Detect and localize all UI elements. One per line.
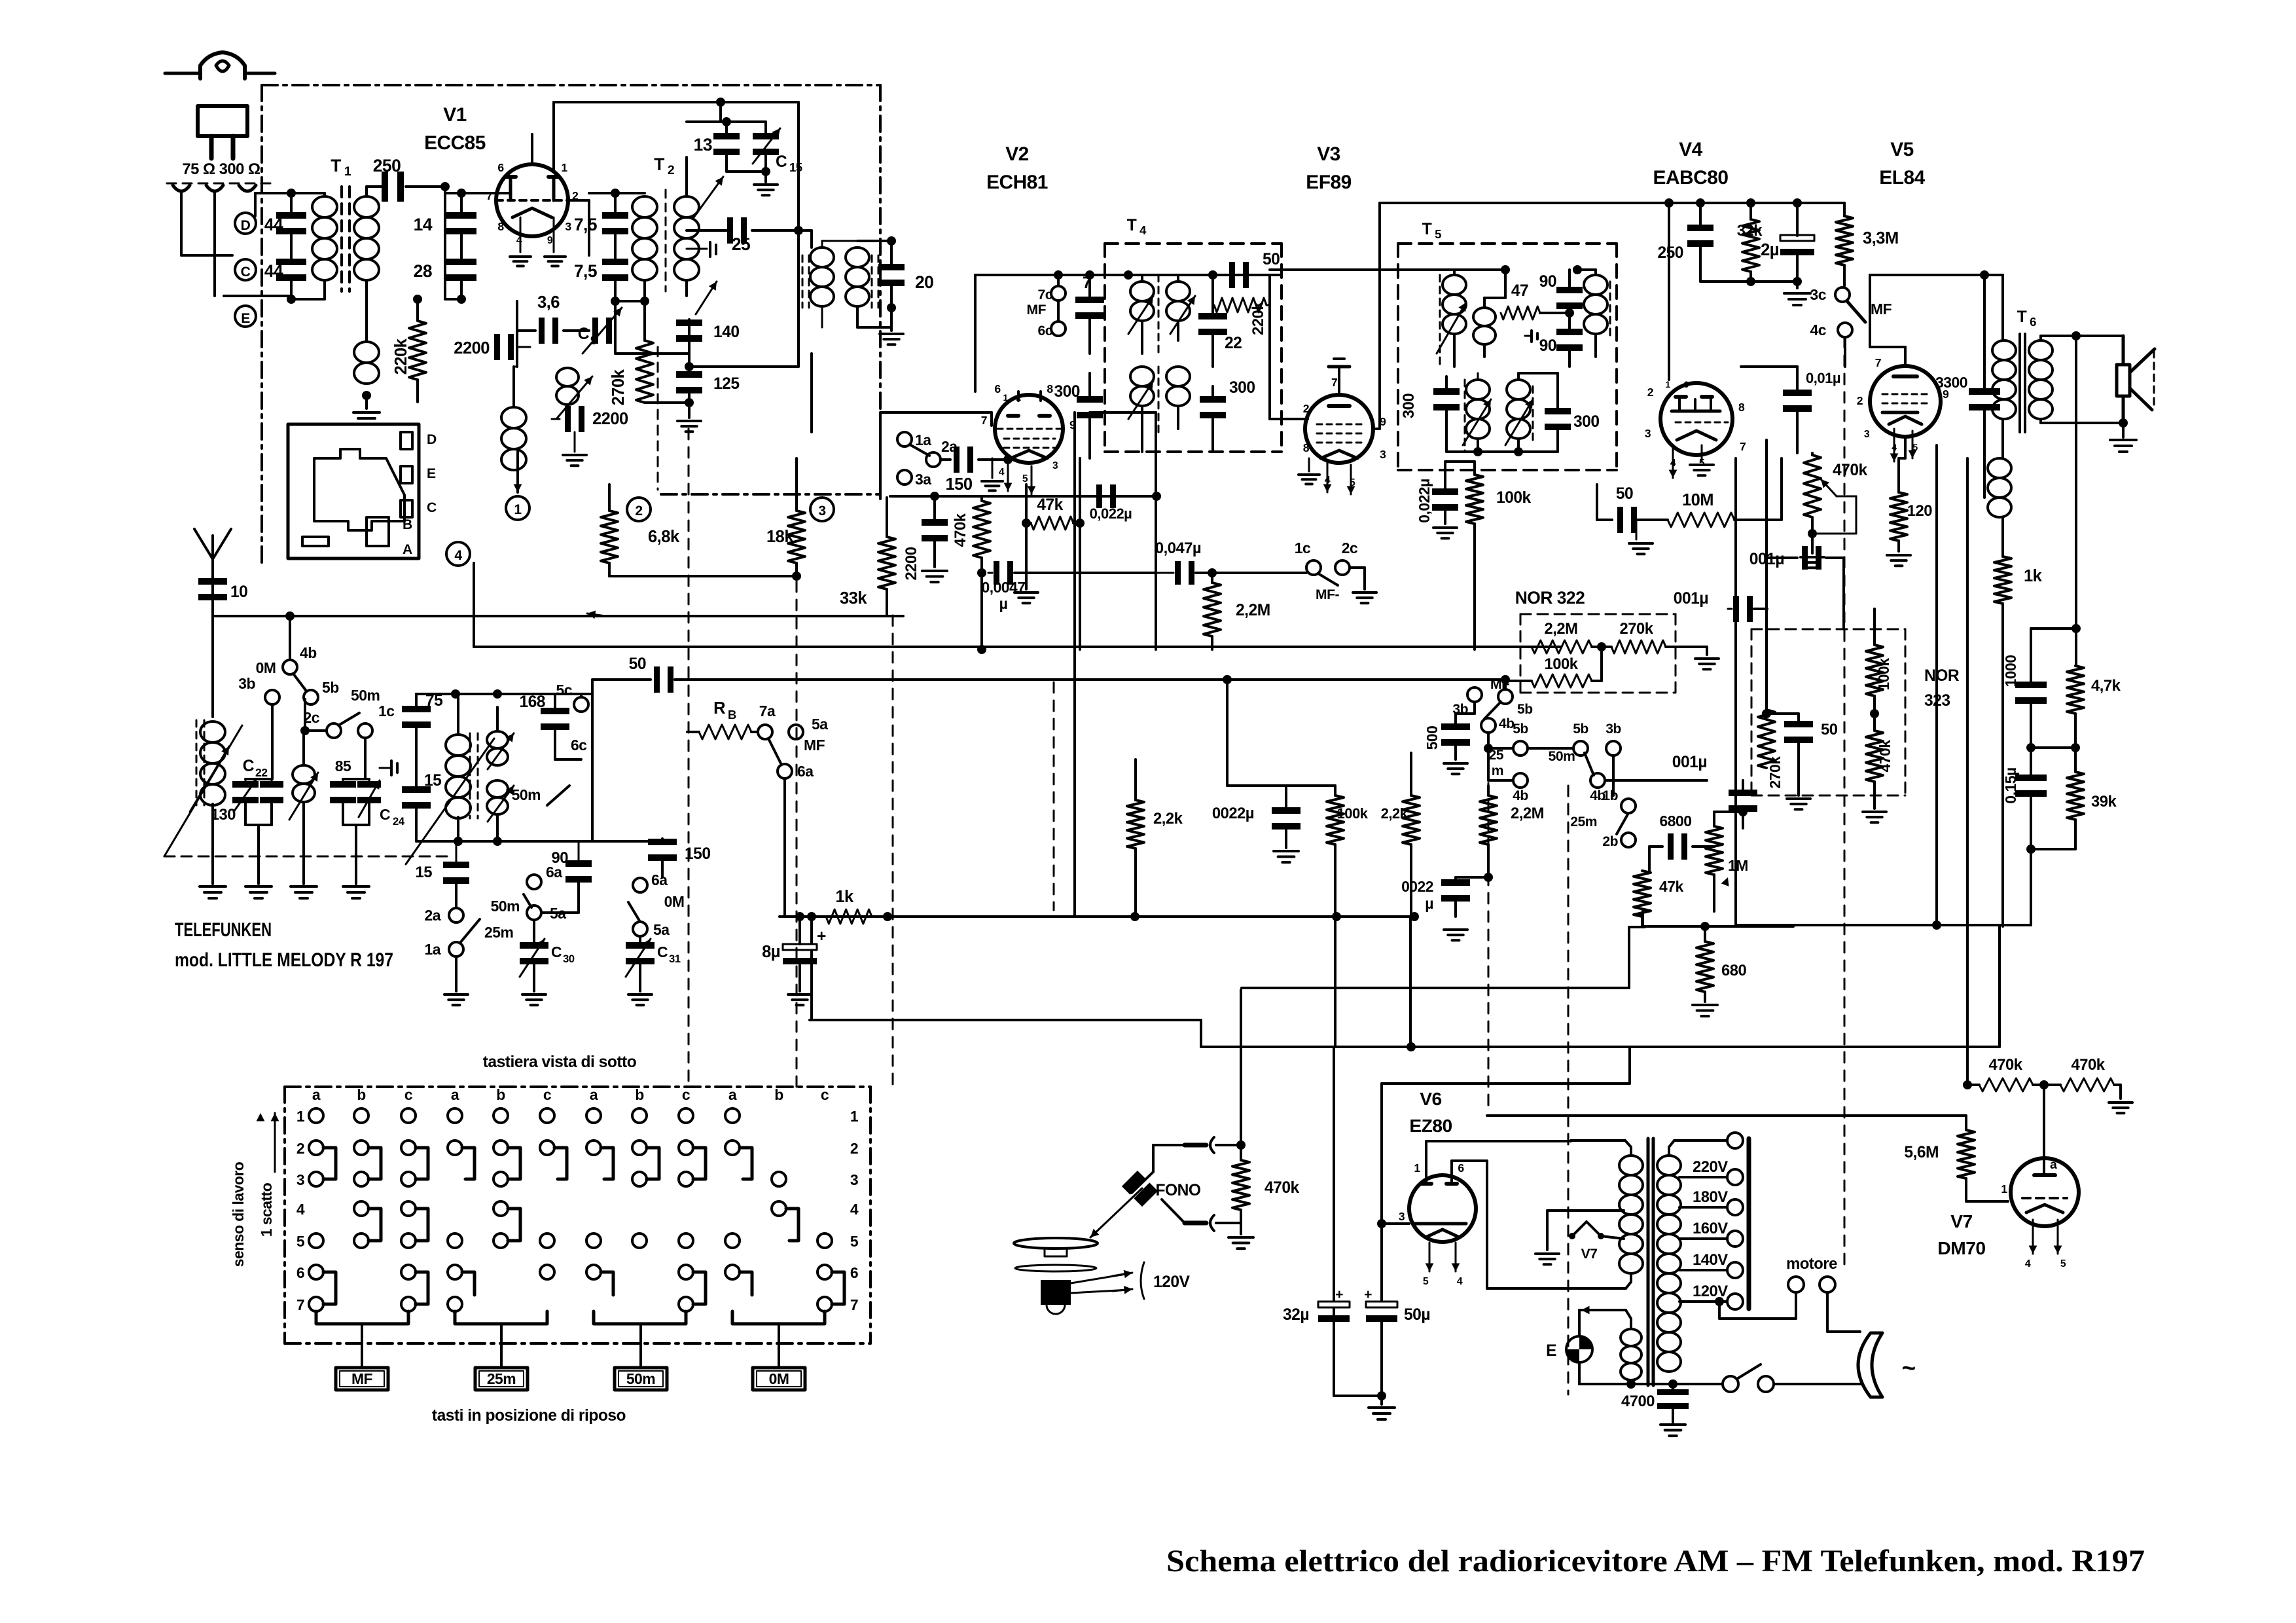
svg-text:6: 6	[1683, 379, 1689, 390]
svg-text:1c: 1c	[378, 702, 395, 720]
arrow to turntable	[1090, 1188, 1142, 1237]
1M wiper	[1641, 910, 1644, 926]
svg-text:47k: 47k	[1659, 878, 1683, 895]
wire top 0,01u	[1741, 365, 1797, 368]
svg-text:75 Ω 300 Ω: 75 Ω 300 Ω	[182, 160, 260, 178]
ground 90	[578, 912, 579, 913]
svg-text:150: 150	[945, 475, 972, 494]
coil pair right	[487, 731, 508, 748]
svg-text:2: 2	[850, 1140, 858, 1157]
svg-text:C: C	[380, 806, 390, 823]
svg-text:1 scatto: 1 scatto	[258, 1182, 275, 1237]
fono plug bottom	[1210, 1215, 1214, 1231]
V2 pin arrows	[1007, 463, 1009, 491]
svg-text:20: 20	[915, 272, 933, 292]
svg-text:3: 3	[1052, 460, 1058, 471]
svg-text:3,3M: 3,3M	[1863, 229, 1899, 247]
svg-text:C: C	[776, 153, 787, 171]
svg-text:T: T	[1422, 221, 1432, 238]
wire bottom net	[2031, 848, 2075, 850]
svg-text:1: 1	[1003, 392, 1008, 403]
wire V1 plate to T2	[568, 199, 589, 202]
svg-text:ECH81: ECH81	[986, 172, 1048, 193]
wire fono vertical	[1240, 990, 1242, 1145]
svg-text:V1: V1	[443, 104, 467, 126]
wire	[255, 192, 325, 194]
svg-text:33k: 33k	[840, 589, 867, 608]
svg-text:4: 4	[1457, 1276, 1463, 1287]
svg-text:270k: 270k	[1620, 620, 1654, 638]
wire input T5	[1270, 268, 1454, 271]
svg-text:22: 22	[255, 766, 268, 779]
svg-text:2: 2	[1303, 402, 1310, 415]
switch 6a 50m 5a left	[527, 875, 541, 889]
svg-text:4: 4	[850, 1201, 859, 1218]
svg-text:3: 3	[1399, 1210, 1405, 1223]
wire osc vertical	[797, 102, 800, 230]
switch row 4b 4b 50m	[1487, 748, 1490, 780]
turntable	[1014, 1238, 1098, 1249]
transformer core	[1647, 1139, 1650, 1385]
svg-text:NOR: NOR	[1924, 667, 1960, 685]
svg-text:motore: motore	[1786, 1255, 1837, 1273]
svg-text:1: 1	[344, 164, 351, 179]
variable coil	[293, 765, 315, 784]
svg-text:6: 6	[994, 382, 1001, 395]
wire V1 plate top	[552, 102, 555, 172]
svg-text:5a: 5a	[653, 921, 670, 938]
transformer bottom bus	[1579, 1383, 1723, 1385]
svg-text:E: E	[427, 466, 436, 481]
svg-text:4: 4	[2025, 1258, 2031, 1269]
wire V3 plate right	[1373, 428, 1380, 430]
ground 50	[1787, 797, 1810, 800]
svg-text:680: 680	[1721, 962, 1746, 979]
circled 1	[506, 496, 529, 520]
svg-text:50m: 50m	[1549, 749, 1575, 764]
svg-text:ECC85: ECC85	[424, 132, 486, 154]
NOR 322 dashed box	[1520, 613, 1676, 615]
svg-text:Schema elettrico del radiorice: Schema elettrico del radioricevitore AM …	[1166, 1544, 2145, 1578]
svg-text:5b: 5b	[1513, 721, 1528, 737]
svg-text:500: 500	[1424, 726, 1441, 750]
cartridge	[1122, 1171, 1158, 1207]
svg-text:7: 7	[486, 189, 493, 202]
dashed linkage 5	[1568, 786, 1570, 1395]
wire caps bottom	[1700, 280, 1797, 283]
feedback tap	[2075, 336, 2077, 666]
svg-text:EL84: EL84	[1879, 167, 1925, 189]
svg-text:V3: V3	[1317, 143, 1340, 165]
T5 lower section coils	[1433, 388, 1460, 395]
svg-text:160V: 160V	[1693, 1220, 1728, 1237]
svg-text:8µ: 8µ	[762, 943, 780, 961]
ground ant coil	[200, 885, 226, 888]
svg-text:5: 5	[1435, 227, 1441, 241]
NOR 323 dashed box	[1751, 629, 1905, 630]
svg-text:0,01µ: 0,01µ	[1806, 370, 1840, 386]
oscillator inner dashed partition	[657, 347, 659, 490]
pickup arm	[1153, 1144, 1185, 1146]
svg-text:1a: 1a	[425, 941, 441, 958]
top rail	[1669, 202, 1844, 204]
svg-text:V7: V7	[1950, 1211, 1972, 1231]
svg-text:50: 50	[1263, 251, 1280, 268]
svg-text:85: 85	[335, 757, 351, 775]
wire T4 to V3	[1268, 305, 1271, 419]
svg-text:T: T	[654, 155, 664, 174]
ground 0022u left	[1274, 850, 1299, 852]
bus 2	[474, 646, 1561, 648]
svg-text:C: C	[427, 500, 437, 515]
svg-text:2200: 2200	[903, 547, 920, 580]
svg-text:5b: 5b	[1573, 721, 1588, 737]
svg-text:6a: 6a	[651, 871, 668, 888]
svg-text:5: 5	[1423, 1276, 1429, 1287]
svg-text:470k: 470k	[1265, 1179, 1300, 1197]
small cap junction	[399, 759, 416, 760]
wire grid bus y758	[890, 495, 1157, 498]
vertical 2652	[1734, 458, 1737, 925]
svg-text:6: 6	[497, 161, 504, 174]
svg-text:6800: 6800	[1660, 812, 1692, 830]
svg-text:220V: 220V	[1693, 1158, 1728, 1176]
svg-text:50: 50	[1821, 721, 1838, 739]
svg-text:tasti in posizione di ripo: tasti in posizione di riposo	[432, 1407, 626, 1425]
wire top T4	[975, 274, 1282, 276]
capacitor C24 variable	[357, 781, 381, 788]
svg-text:TELEFUNKEN: TELEFUNKEN	[175, 919, 272, 941]
svg-text:3: 3	[1645, 427, 1651, 440]
bus y1605	[1409, 917, 1412, 1047]
svg-text:a: a	[451, 1086, 459, 1103]
dashed linkage 3	[892, 615, 894, 1087]
svg-text:2,2M: 2,2M	[1545, 620, 1578, 638]
svg-text:4: 4	[454, 548, 462, 563]
T5 coupling coil	[1473, 308, 1496, 326]
svg-text:001µ: 001µ	[1672, 754, 1707, 771]
vertical 3050	[2001, 647, 2004, 926]
bus AVC	[213, 615, 903, 617]
svg-text:31: 31	[669, 953, 681, 965]
svg-text:3b: 3b	[238, 675, 255, 692]
svg-text:a: a	[590, 1086, 598, 1103]
ground 500	[1444, 762, 1467, 765]
FM front-end dash-dot enclosure	[262, 84, 880, 86]
keyboard contacts rows 2-3	[309, 1140, 323, 1155]
svg-text:47: 47	[1511, 282, 1528, 300]
svg-text:25m: 25m	[484, 924, 513, 941]
svg-text:14: 14	[414, 215, 433, 234]
keyboard contacts row1	[309, 1108, 323, 1123]
tube V2	[995, 395, 1063, 463]
svg-text:300: 300	[1573, 413, 1600, 431]
svg-text:8: 8	[1738, 401, 1745, 414]
svg-text:50: 50	[629, 655, 646, 673]
svg-text:7: 7	[1331, 376, 1338, 389]
svg-text:2200: 2200	[592, 410, 628, 428]
svg-text:E: E	[1546, 1342, 1556, 1360]
wire 50 to V4	[1596, 504, 1598, 520]
ground	[245, 885, 272, 888]
svg-text:b: b	[496, 1086, 505, 1103]
svg-text:MF: MF	[804, 737, 825, 754]
svg-text:7: 7	[1875, 356, 1882, 369]
svg-text:250: 250	[1657, 244, 1683, 262]
wire osc grid	[687, 229, 726, 232]
ground V4	[1701, 445, 1703, 462]
svg-text:6: 6	[850, 1264, 858, 1281]
heater winding	[1621, 1329, 1641, 1346]
capacitor 50 T4	[1229, 262, 1235, 288]
switch MF 5b 3b	[1467, 687, 1482, 702]
capacitor 300 left	[1077, 396, 1103, 403]
svg-text:1: 1	[2001, 1182, 2007, 1195]
svg-text:9: 9	[547, 235, 553, 246]
ground V1 cathode	[520, 217, 522, 252]
svg-text:c: c	[682, 1086, 691, 1103]
svg-text:5: 5	[850, 1233, 859, 1250]
speaker	[2122, 336, 2125, 365]
ground	[353, 411, 380, 414]
dashed linkage 4	[1488, 783, 1490, 1113]
switch 1a 2a 3a	[897, 432, 912, 447]
svg-text:7,5: 7,5	[574, 215, 597, 234]
svg-text:15: 15	[416, 864, 433, 881]
svg-text:6a: 6a	[546, 864, 562, 881]
svg-text:EABC80: EABC80	[1653, 167, 1729, 189]
antenna input terminals	[173, 185, 190, 191]
capacitor 150	[954, 447, 960, 473]
ground speaker	[2122, 423, 2125, 437]
svg-text:DM70: DM70	[1937, 1237, 1985, 1258]
wire top right net	[2031, 759, 2075, 760]
svg-text:0,047µ: 0,047µ	[1155, 539, 1201, 557]
svg-text:MF: MF	[351, 1370, 373, 1387]
T4 dashed box	[1105, 242, 1282, 245]
svg-text:C: C	[243, 757, 255, 775]
switch 1b 25m 2b	[1621, 799, 1636, 813]
svg-text:T: T	[1127, 217, 1137, 234]
T5 right coil	[1584, 275, 1607, 295]
wire from osc	[696, 282, 717, 314]
svg-text:6: 6	[296, 1264, 304, 1281]
svg-text:3a: 3a	[915, 471, 931, 488]
svg-text:7: 7	[1740, 440, 1746, 453]
transformer primary winding	[1619, 1156, 1643, 1175]
V6 plate wires	[1425, 1141, 1427, 1184]
svg-text:1k: 1k	[835, 888, 854, 906]
V2 input switch enclosure	[880, 412, 992, 499]
svg-text:0,0047: 0,0047	[981, 579, 1025, 596]
svg-text:2: 2	[1647, 386, 1654, 399]
bus 470k 470k row	[1793, 1084, 1967, 1085]
svg-text:+: +	[817, 928, 826, 945]
ground V2	[992, 458, 994, 478]
pot wiper 470k	[1821, 479, 1837, 496]
svg-text:1b: 1b	[1602, 788, 1618, 803]
svg-text:2,2M: 2,2M	[1236, 602, 1270, 619]
svg-text:b: b	[635, 1086, 644, 1103]
svg-text:+: +	[1364, 1287, 1372, 1302]
svg-text:8: 8	[1303, 441, 1310, 454]
svg-text:0,022µ: 0,022µ	[1416, 479, 1433, 522]
T4 secondary coils	[1130, 367, 1154, 386]
svg-text:50m: 50m	[626, 1370, 655, 1387]
svg-text:90: 90	[1539, 337, 1556, 355]
svg-text:7: 7	[981, 414, 988, 427]
svg-text:0,15µ: 0,15µ	[2002, 767, 2019, 803]
svg-text:EZ80: EZ80	[1409, 1115, 1452, 1136]
primary bottom lead	[1626, 1273, 1631, 1288]
dashed linkage 1610	[1053, 682, 1055, 910]
svg-text:EF89: EF89	[1306, 172, 1351, 193]
tuning coil main	[455, 694, 456, 759]
svg-text:5,6M: 5,6M	[1904, 1144, 1939, 1161]
svg-text:4,7k: 4,7k	[2091, 677, 2121, 695]
svg-text:25: 25	[1489, 748, 1504, 763]
svg-text:V6: V6	[1420, 1088, 1441, 1109]
T4 primary coils	[1130, 282, 1154, 301]
svg-text:1: 1	[1665, 379, 1670, 390]
ground 2200	[922, 570, 947, 572]
bus 3	[675, 678, 1505, 681]
antenna	[211, 559, 214, 616]
keyboard mode labels	[336, 1368, 388, 1390]
svg-text:1M: 1M	[1728, 857, 1748, 874]
bottom tuning bus	[416, 840, 592, 843]
switch row 5b 5b 3b	[1487, 733, 1490, 748]
svg-text:2: 2	[635, 503, 642, 519]
vertical 2817	[1842, 558, 1845, 629]
svg-text:3b: 3b	[1605, 721, 1621, 737]
svg-text:24: 24	[393, 815, 405, 828]
capacitor 300 T5	[1545, 408, 1571, 414]
capacitor C30	[520, 942, 548, 949]
svg-text:6: 6	[2030, 315, 2036, 329]
svg-text:6: 6	[1458, 1161, 1464, 1175]
svg-text:300: 300	[1054, 383, 1080, 401]
svg-text:senso di lavoro: senso di lavoro	[230, 1161, 247, 1267]
svg-text:10M: 10M	[1682, 491, 1713, 509]
wire mid net	[2031, 746, 2075, 749]
svg-text:220k: 220k	[392, 338, 410, 374]
wire 1509	[1242, 987, 1629, 989]
tube V5	[1870, 366, 1941, 437]
svg-text:300: 300	[1229, 379, 1255, 397]
svg-text:470k: 470k	[952, 513, 969, 547]
motor wires 120V	[1071, 1273, 1130, 1283]
svg-text:22: 22	[1225, 335, 1242, 352]
circled 3	[810, 498, 834, 521]
bus bottom 1k	[780, 915, 1414, 918]
svg-text:NOR 322: NOR 322	[1515, 588, 1585, 608]
input terminal D	[235, 213, 256, 234]
keyboard dash-dot box	[285, 1085, 870, 1088]
wire vertical V2 pin3	[1025, 484, 1028, 523]
small cap to ground	[687, 248, 707, 250]
svg-text:1: 1	[296, 1108, 305, 1125]
circled 2	[627, 498, 651, 521]
svg-text:2c: 2c	[1342, 539, 1358, 556]
svg-text:10: 10	[230, 583, 247, 601]
antenna coil	[196, 720, 198, 805]
bus y1704 left part	[1200, 1020, 1202, 1051]
wire AVC into 2,2M	[1532, 646, 1561, 647]
svg-text:2200: 2200	[454, 339, 490, 357]
svg-text:C: C	[657, 943, 668, 960]
resistor 220k T4	[1214, 298, 1266, 312]
svg-text:c: c	[543, 1086, 552, 1103]
DIN connector	[288, 424, 419, 558]
ground fono	[1229, 1236, 1253, 1239]
svg-text:2b: 2b	[1602, 834, 1618, 849]
vertical 3006 upper	[1966, 458, 1969, 1085]
tube V6	[1409, 1175, 1476, 1242]
svg-text:4c: 4c	[1810, 321, 1827, 338]
ground 680	[1693, 1004, 1717, 1006]
svg-text:7: 7	[296, 1296, 304, 1313]
svg-text:3: 3	[850, 1171, 858, 1188]
svg-text:3c: 3c	[1810, 286, 1827, 303]
wire	[444, 187, 446, 299]
svg-text:MF-: MF-	[1316, 587, 1339, 602]
svg-text:470k: 470k	[2072, 1056, 2106, 1074]
ground 470k pot	[1801, 556, 1824, 558]
svg-text:2c: 2c	[304, 709, 320, 726]
T5 primary coil	[1439, 275, 1441, 367]
svg-text:8: 8	[1047, 382, 1053, 395]
svg-text:5a: 5a	[550, 905, 566, 922]
svg-text:3: 3	[565, 220, 571, 233]
svg-text:470k: 470k	[1989, 1056, 2023, 1074]
wire down from net	[2030, 849, 2032, 925]
choke below T1	[365, 302, 368, 340]
wire	[643, 301, 646, 340]
svg-text:4: 4	[516, 235, 522, 246]
motore wires	[1718, 1302, 1721, 1319]
svg-text:m: m	[1492, 763, 1503, 778]
wire 47k to 680	[1642, 925, 1705, 928]
input terminal E	[235, 306, 256, 327]
switch 6a OM 5a right	[633, 878, 647, 892]
wire 270k top	[1765, 632, 1768, 661]
switch 5c	[574, 697, 588, 712]
svg-text:B: B	[728, 708, 736, 721]
svg-text:25m: 25m	[487, 1370, 516, 1387]
svg-text:39k: 39k	[2091, 793, 2117, 811]
svg-text:3: 3	[818, 503, 825, 519]
svg-text:100k: 100k	[1545, 655, 1579, 673]
motore terminals	[1788, 1277, 1804, 1292]
switch 4b	[283, 660, 297, 674]
svg-text:2: 2	[296, 1140, 304, 1157]
svg-text:V7: V7	[1581, 1247, 1598, 1262]
svg-text:7,5: 7,5	[574, 261, 597, 281]
svg-text:a: a	[728, 1086, 737, 1103]
ground 270k	[1695, 657, 1719, 660]
svg-text:5: 5	[296, 1233, 305, 1250]
svg-text:4: 4	[1139, 223, 1147, 237]
wire T5 bottom	[1446, 450, 1558, 453]
capacitor 300 T4	[1200, 396, 1226, 403]
V3 pin arrows	[1327, 463, 1329, 492]
svg-text:V5: V5	[1890, 139, 1914, 160]
switch 1c 2c MF-	[1306, 560, 1321, 575]
keyboard group bottom brackets	[316, 1311, 408, 1324]
svg-text:4700: 4700	[1621, 1393, 1655, 1410]
svg-text:mod. LITTLE MELODY R 197: mod. LITTLE MELODY R 197	[175, 949, 393, 971]
